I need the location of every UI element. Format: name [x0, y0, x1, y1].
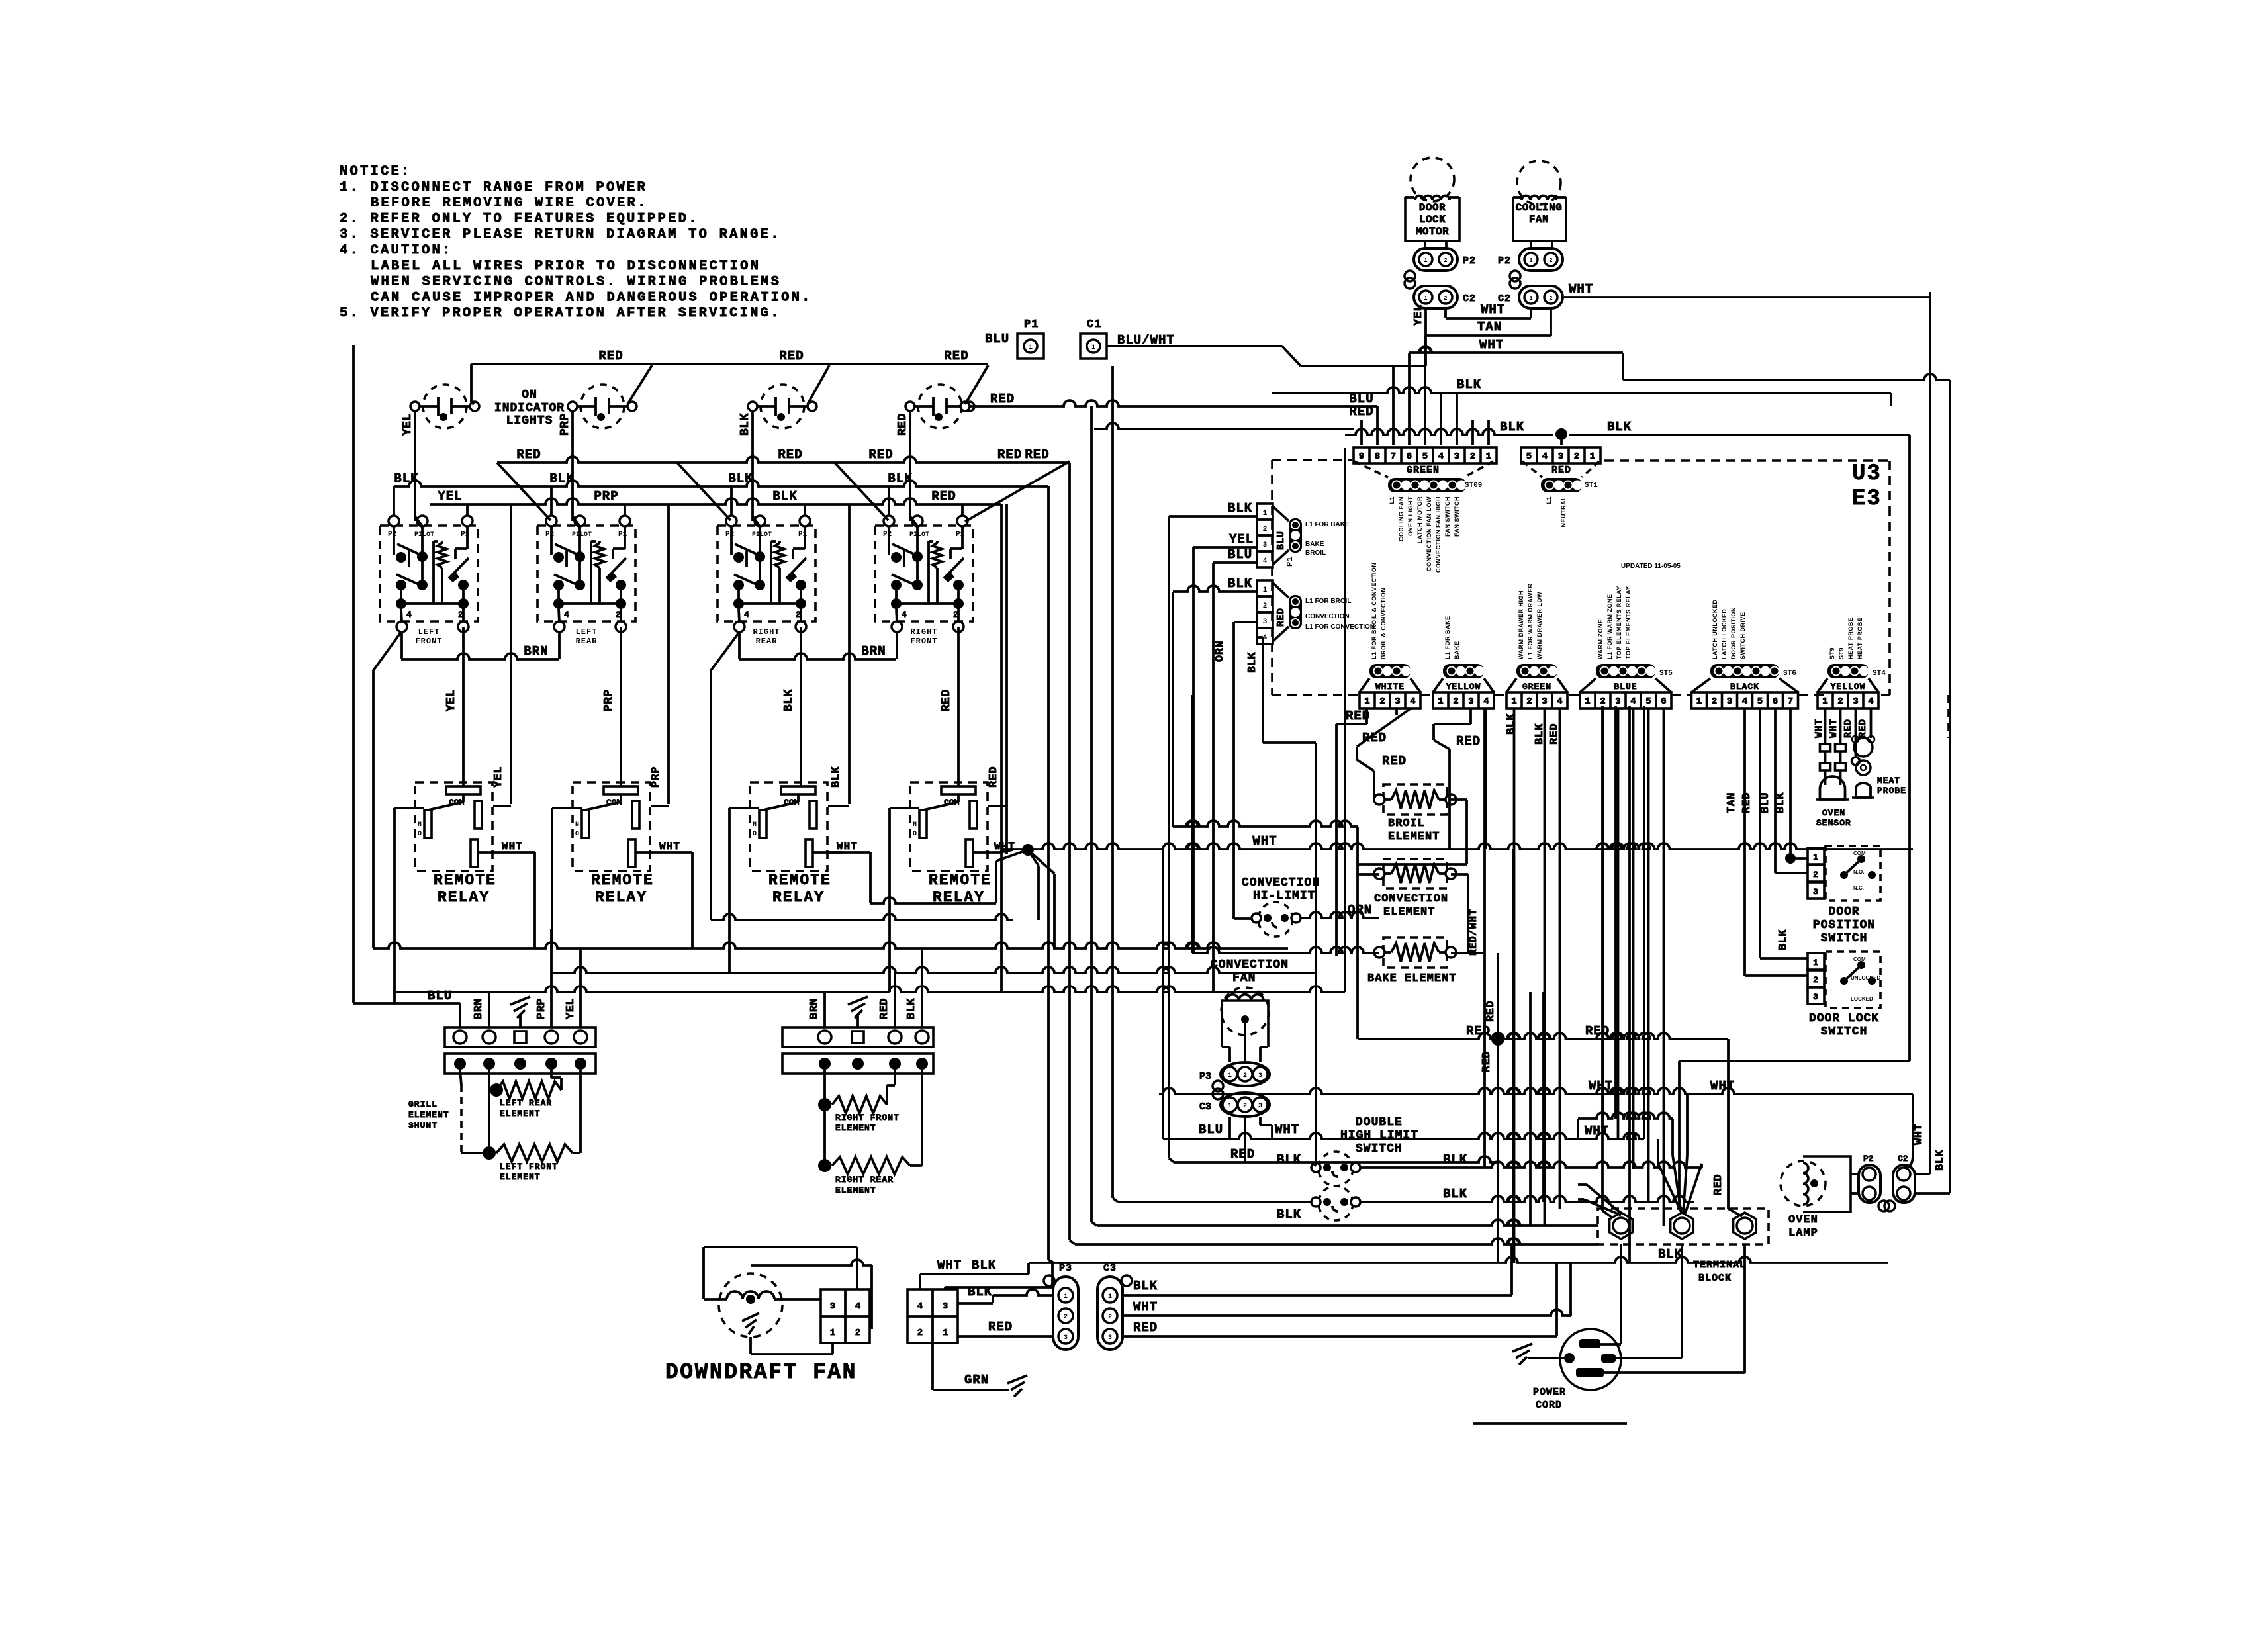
svg-text:BLK: BLK	[1246, 652, 1259, 673]
svg-text:TAN: TAN	[1726, 792, 1738, 813]
svg-text:1: 1	[1590, 451, 1595, 462]
svg-text:2: 2	[1526, 696, 1532, 707]
svg-text:GRN: GRN	[964, 1373, 989, 1387]
svg-text:C1: C1	[1087, 318, 1101, 331]
svg-text:ST9: ST9	[1829, 647, 1835, 659]
svg-text:WARM DRAWER LOW: WARM DRAWER LOW	[1536, 592, 1543, 659]
svg-text:YEL: YEL	[445, 689, 458, 711]
svg-text:4: 4	[744, 610, 749, 619]
svg-text:RED: RED	[1133, 1320, 1158, 1335]
svg-text:RED: RED	[1551, 465, 1571, 476]
svg-text:4: 4	[1557, 696, 1562, 707]
svg-text:L1 FOR WARM DRAWER: L1 FOR WARM DRAWER	[1527, 584, 1534, 660]
svg-text:RED: RED	[944, 349, 968, 363]
svg-text:WHT: WHT	[937, 1258, 962, 1273]
svg-text:4: 4	[564, 610, 569, 619]
svg-text:P2: P2	[883, 531, 892, 539]
svg-text:RELAY: RELAY	[772, 889, 825, 906]
svg-text:3: 3	[830, 1301, 835, 1312]
svg-text:SHUNT: SHUNT	[408, 1121, 438, 1130]
svg-text:LATCH LOCKED: LATCH LOCKED	[1721, 609, 1728, 659]
svg-text:BLK: BLK	[1500, 420, 1524, 434]
svg-text:1: 1	[1529, 257, 1533, 264]
svg-text:O: O	[913, 831, 917, 838]
svg-text:2: 2	[1379, 696, 1385, 707]
svg-text:ELEMENT: ELEMENT	[500, 1172, 541, 1182]
svg-text:DOOR: DOOR	[1828, 905, 1859, 919]
svg-text:GREEN: GREEN	[1407, 465, 1440, 476]
svg-text:4: 4	[1742, 696, 1747, 707]
svg-text:2: 2	[1243, 1072, 1247, 1079]
svg-text:2: 2	[1574, 451, 1579, 462]
svg-text:BEFORE REMOVING WIRE COVER.: BEFORE REMOVING WIRE COVER.	[371, 196, 648, 211]
svg-text:P2: P2	[545, 531, 554, 539]
svg-text:1: 1	[1585, 696, 1590, 707]
svg-text:P2: P2	[1498, 255, 1511, 267]
svg-text:POSITION: POSITION	[1813, 919, 1875, 932]
svg-text:FAN SWITCH: FAN SWITCH	[1454, 496, 1460, 537]
svg-text:MEAT: MEAT	[1877, 776, 1900, 786]
svg-text:ON: ON	[522, 389, 537, 402]
svg-text:WHT: WHT	[1479, 338, 1504, 352]
svg-text:REMOTE: REMOTE	[929, 872, 992, 889]
svg-text:3: 3	[1263, 541, 1268, 549]
svg-text:C2: C2	[1463, 293, 1476, 304]
svg-text:WHT: WHT	[837, 841, 858, 852]
svg-text:BRN: BRN	[473, 998, 485, 1019]
svg-text:OVEN LIGHT: OVEN LIGHT	[1407, 496, 1414, 536]
svg-text:3: 3	[1558, 451, 1563, 462]
svg-text:RED: RED	[1456, 734, 1481, 749]
svg-text:WHT: WHT	[1814, 719, 1825, 738]
svg-text:PILOT: PILOT	[752, 531, 772, 539]
svg-text:BLK: BLK	[905, 998, 918, 1019]
svg-text:CORD: CORD	[1536, 1400, 1562, 1411]
svg-text:4: 4	[1410, 696, 1415, 707]
svg-text:E3: E3	[1852, 486, 1882, 512]
svg-text:1: 1	[1228, 1072, 1232, 1079]
svg-text:RELAY: RELAY	[438, 889, 490, 906]
svg-text:1: 1	[1813, 958, 1818, 968]
svg-text:1: 1	[1822, 696, 1827, 707]
svg-text:ELEMENT: ELEMENT	[500, 1109, 541, 1119]
svg-text:BROIL & CONVECTION: BROIL & CONVECTION	[1380, 588, 1387, 659]
svg-text:3: 3	[1263, 618, 1268, 626]
svg-text:LATCH UNLOCKED: LATCH UNLOCKED	[1712, 600, 1718, 659]
svg-text:ELEMENT: ELEMENT	[835, 1123, 876, 1133]
svg-text:BLU: BLU	[1199, 1123, 1223, 1137]
svg-text:DOOR: DOOR	[1419, 202, 1446, 214]
svg-text:HEAT PROBE: HEAT PROBE	[1857, 618, 1863, 659]
svg-text:YEL: YEL	[438, 489, 462, 504]
svg-text:L1 FOR CONVECTION: L1 FOR CONVECTION	[1305, 623, 1375, 631]
svg-text:REMOTE: REMOTE	[768, 872, 831, 889]
svg-text:BLK: BLK	[1277, 1152, 1301, 1167]
svg-text:6: 6	[1661, 696, 1666, 707]
svg-text:L1 FOR BROIL & CONVECTION: L1 FOR BROIL & CONVECTION	[1371, 563, 1377, 659]
svg-text:BLK: BLK	[728, 471, 753, 486]
svg-text:3: 3	[1813, 992, 1818, 1002]
svg-text:4: 4	[1868, 696, 1873, 707]
svg-text:2: 2	[1453, 696, 1458, 707]
svg-text:TAN: TAN	[1477, 320, 1502, 334]
svg-text:RED: RED	[940, 689, 953, 711]
svg-text:REAR: REAR	[756, 637, 778, 646]
svg-text:UNLOCKED: UNLOCKED	[1851, 975, 1881, 981]
svg-text:2: 2	[1243, 1103, 1247, 1110]
svg-text:4: 4	[406, 610, 412, 619]
svg-text:DOUBLE: DOUBLE	[1356, 1116, 1403, 1129]
svg-text:4. CAUTION:: 4. CAUTION:	[340, 243, 453, 258]
svg-text:2: 2	[1600, 696, 1605, 707]
svg-text:BLU: BLU	[985, 332, 1009, 346]
svg-text:BLK: BLK	[972, 1258, 996, 1273]
svg-text:BLU: BLU	[1228, 547, 1252, 562]
svg-text:MOTOR: MOTOR	[1416, 226, 1450, 238]
svg-text:1: 1	[943, 1328, 948, 1338]
svg-text:RED: RED	[988, 1320, 1013, 1334]
svg-text:BLK: BLK	[772, 489, 797, 504]
svg-text:3: 3	[1615, 696, 1620, 707]
svg-text:1: 1	[830, 1328, 835, 1338]
svg-text:YEL: YEL	[1229, 532, 1254, 547]
svg-text:LATCH MOTOR: LATCH MOTOR	[1416, 496, 1423, 543]
svg-text:P2: P2	[1863, 1154, 1874, 1164]
svg-text:ORN: ORN	[1214, 641, 1226, 662]
svg-text:SWITCH DRIVE: SWITCH DRIVE	[1739, 612, 1746, 659]
svg-text:3: 3	[1468, 696, 1473, 707]
svg-text:WHITE: WHITE	[1375, 682, 1405, 692]
svg-text:ST4: ST4	[1873, 670, 1886, 678]
svg-text:BLK: BLK	[549, 471, 574, 486]
svg-text:BROIL: BROIL	[1305, 549, 1326, 557]
svg-text:3: 3	[943, 1301, 948, 1312]
svg-text:BLUE: BLUE	[1614, 682, 1637, 692]
svg-text:2: 2	[1108, 1314, 1112, 1321]
svg-text:4: 4	[855, 1301, 860, 1312]
svg-text:BROIL: BROIL	[1388, 817, 1425, 830]
svg-text:BLK: BLK	[1658, 1247, 1683, 1262]
svg-text:LABEL ALL WIRES PRIOR TO DISCO: LABEL ALL WIRES PRIOR TO DISCONNECTION	[371, 259, 761, 274]
svg-text:3: 3	[1064, 1334, 1068, 1342]
svg-text:WHT: WHT	[1828, 719, 1839, 738]
svg-text:1: 1	[1064, 1293, 1068, 1301]
svg-text:BLK: BLK	[1228, 576, 1252, 591]
svg-text:6: 6	[1773, 696, 1778, 707]
svg-text:GREEN: GREEN	[1522, 682, 1551, 692]
svg-text:CONVECTION FAN HIGH: CONVECTION FAN HIGH	[1435, 496, 1442, 573]
svg-text:L1: L1	[1389, 496, 1395, 504]
svg-text:ELEMENT: ELEMENT	[1383, 906, 1435, 919]
svg-text:1: 1	[1029, 344, 1033, 351]
svg-text:FAN SWITCH: FAN SWITCH	[1444, 496, 1451, 537]
svg-text:3: 3	[1395, 696, 1400, 707]
svg-text:CONVECTION: CONVECTION	[1211, 958, 1289, 972]
svg-text:L1 FOR BAKE: L1 FOR BAKE	[1444, 616, 1451, 659]
svg-text:PRP: PRP	[535, 998, 548, 1019]
svg-text:N: N	[753, 821, 757, 829]
svg-text:BLOCK: BLOCK	[1698, 1273, 1732, 1284]
svg-text:WHEN SERVICING CONTROLS. WIRIN: WHEN SERVICING CONTROLS. WIRING PROBLEMS	[371, 275, 781, 290]
svg-text:1: 1	[1813, 852, 1818, 862]
svg-text:2. REFER ONLY TO FEATURES EQU: 2. REFER ONLY TO FEATURES EQUIPPED.	[340, 211, 699, 226]
svg-text:RED: RED	[1275, 608, 1287, 627]
svg-text:U3: U3	[1852, 461, 1882, 486]
svg-text:RED: RED	[516, 447, 541, 462]
svg-text:YEL: YEL	[492, 766, 505, 788]
svg-text:REMOTE: REMOTE	[591, 872, 654, 889]
svg-text:2: 2	[1813, 975, 1818, 985]
svg-text:BLK: BLK	[1505, 713, 1518, 735]
svg-text:C3: C3	[1199, 1101, 1211, 1113]
svg-text:2: 2	[917, 1328, 923, 1338]
svg-text:5: 5	[1645, 696, 1651, 707]
svg-text:RED: RED	[988, 766, 1000, 788]
svg-text:4: 4	[1263, 557, 1268, 565]
svg-text:BLK: BLK	[1607, 420, 1632, 434]
svg-text:BLK: BLK	[739, 413, 752, 436]
svg-text:1: 1	[1228, 1103, 1232, 1110]
svg-text:2: 2	[1837, 696, 1843, 707]
svg-text:HI-LIMIT: HI-LIMIT	[1253, 890, 1315, 903]
svg-text:COOLING: COOLING	[1516, 202, 1563, 214]
svg-text:O: O	[753, 831, 757, 838]
svg-text:P2: P2	[725, 531, 734, 539]
svg-text:BLK: BLK	[1443, 1187, 1467, 1201]
svg-text:RELAY: RELAY	[595, 889, 647, 906]
svg-text:RED: RED	[598, 349, 623, 363]
svg-text:1: 1	[1486, 451, 1491, 462]
svg-text:2: 2	[1813, 870, 1818, 880]
svg-text:5. VERIFY PROPER OPERATION AF: 5. VERIFY PROPER OPERATION AFTER SERVICI…	[340, 306, 781, 321]
svg-text:2: 2	[1263, 602, 1268, 610]
svg-text:OVEN: OVEN	[1788, 1214, 1818, 1226]
svg-text:PRP: PRP	[594, 489, 618, 504]
svg-text:1: 1	[1263, 510, 1268, 518]
svg-text:L1: L1	[1546, 496, 1552, 504]
svg-text:3. SERVICER PLEASE RETURN DIA: 3. SERVICER PLEASE RETURN DIAGRAM TO RAN…	[340, 227, 781, 242]
svg-text:FRONT: FRONT	[910, 637, 937, 646]
svg-text:1. DISCONNECT RANGE FROM POWE: 1. DISCONNECT RANGE FROM POWER	[340, 180, 647, 195]
svg-text:RED: RED	[868, 447, 893, 462]
svg-text:P1: P1	[1024, 318, 1039, 331]
svg-text:WHT: WHT	[659, 841, 680, 852]
svg-text:RED: RED	[878, 998, 891, 1019]
svg-text:ST9: ST9	[1838, 647, 1845, 659]
svg-text:RED: RED	[1382, 754, 1407, 768]
svg-text:2: 2	[1549, 257, 1552, 264]
svg-text:LEFT: LEFT	[418, 627, 440, 637]
svg-text:5: 5	[1422, 451, 1428, 462]
svg-text:2: 2	[1064, 1314, 1068, 1321]
svg-text:2: 2	[1470, 451, 1475, 462]
svg-text:L1 FOR WARM ZONE: L1 FOR WARM ZONE	[1606, 594, 1613, 660]
svg-text:4: 4	[1438, 451, 1444, 462]
svg-text:BLACK: BLACK	[1730, 682, 1759, 692]
svg-text:1: 1	[1364, 696, 1369, 707]
svg-text:BRN: BRN	[861, 644, 886, 659]
svg-text:6: 6	[1407, 451, 1412, 462]
svg-text:1: 1	[1529, 295, 1533, 302]
svg-text:LEFT REAR: LEFT REAR	[500, 1098, 552, 1108]
svg-text:2: 2	[1263, 526, 1268, 533]
svg-text:RED: RED	[1741, 792, 1753, 813]
svg-text:LAMP: LAMP	[1788, 1227, 1818, 1240]
svg-text:BAKE: BAKE	[1305, 541, 1324, 548]
svg-text:YELLOW: YELLOW	[1831, 682, 1866, 692]
svg-text:TOP ELEMENTS RELAY: TOP ELEMENTS RELAY	[1616, 586, 1622, 659]
svg-text:RED: RED	[1485, 1001, 1497, 1022]
svg-text:RED: RED	[997, 447, 1022, 462]
svg-text:PRP: PRP	[602, 689, 616, 711]
svg-text:ST1: ST1	[1585, 482, 1598, 490]
svg-text:BLK: BLK	[1277, 1207, 1301, 1222]
svg-text:SWITCH: SWITCH	[1821, 1025, 1868, 1038]
svg-text:RED: RED	[778, 447, 802, 462]
svg-text:NEUTRAL: NEUTRAL	[1560, 496, 1567, 528]
svg-text:NOTICE:: NOTICE:	[340, 164, 412, 179]
svg-text:2: 2	[458, 610, 463, 619]
svg-text:PRP: PRP	[650, 766, 663, 788]
svg-text:DOOR LOCK: DOOR LOCK	[1809, 1012, 1879, 1025]
svg-text:ELEMENT: ELEMENT	[1388, 831, 1440, 843]
svg-text:RED: RED	[1230, 1147, 1255, 1162]
svg-text:3: 3	[1108, 1334, 1112, 1342]
svg-text:BLK: BLK	[888, 471, 912, 486]
svg-text:1: 1	[1108, 1293, 1112, 1301]
svg-text:BLK: BLK	[830, 766, 843, 788]
svg-text:BLK: BLK	[1443, 1152, 1467, 1167]
svg-text:8: 8	[1375, 451, 1380, 462]
svg-text:N: N	[418, 821, 422, 829]
svg-text:FRONT: FRONT	[415, 637, 442, 646]
svg-text:BLU: BLU	[1275, 531, 1287, 550]
svg-text:RIGHT REAR: RIGHT REAR	[835, 1175, 894, 1185]
svg-text:RED: RED	[931, 489, 956, 504]
svg-text:CONVECTION: CONVECTION	[1305, 613, 1350, 620]
svg-text:SENSOR: SENSOR	[1816, 818, 1851, 828]
svg-text:ST5: ST5	[1659, 670, 1673, 678]
svg-text:LOCK: LOCK	[1419, 214, 1446, 226]
svg-text:HEAT PROBE: HEAT PROBE	[1847, 618, 1854, 659]
svg-text:N.C.: N.C.	[1853, 885, 1864, 891]
svg-text:2: 2	[1444, 257, 1447, 264]
svg-text:OVEN: OVEN	[1822, 808, 1845, 818]
svg-text:PRP: PRP	[559, 413, 572, 436]
svg-text:LIGHTS: LIGHTS	[506, 414, 553, 428]
svg-text:PROBE: PROBE	[1877, 786, 1906, 796]
svg-text:RED: RED	[990, 392, 1015, 406]
svg-text:LEFT: LEFT	[576, 627, 598, 637]
svg-text:YELLOW: YELLOW	[1446, 682, 1481, 692]
svg-text:P1: P1	[1285, 557, 1295, 567]
svg-text:RED: RED	[896, 413, 909, 436]
svg-text:YEL: YEL	[1412, 304, 1425, 326]
svg-text:RED: RED	[779, 349, 804, 363]
svg-text:WARM DRAWER HIGH: WARM DRAWER HIGH	[1518, 590, 1524, 659]
svg-text:3: 3	[1542, 696, 1547, 707]
svg-text:BAKE: BAKE	[1454, 641, 1460, 659]
svg-text:9: 9	[1359, 451, 1364, 462]
svg-text:ELEMENT: ELEMENT	[408, 1110, 449, 1120]
svg-text:RIGHT: RIGHT	[753, 627, 780, 637]
svg-text:YEL: YEL	[401, 413, 414, 436]
svg-text:BLK: BLK	[782, 689, 796, 711]
svg-text:4: 4	[1630, 696, 1636, 707]
svg-text:INDICATOR: INDICATOR	[494, 402, 565, 415]
svg-text:RIGHT FRONT: RIGHT FRONT	[835, 1113, 900, 1123]
svg-text:3: 3	[1853, 696, 1858, 707]
svg-text:ELEMENT: ELEMENT	[835, 1185, 876, 1195]
svg-text:4: 4	[902, 610, 907, 619]
svg-text:O: O	[418, 831, 422, 838]
svg-text:P2: P2	[388, 531, 396, 539]
svg-text:4: 4	[917, 1301, 923, 1312]
svg-text:3: 3	[1258, 1072, 1262, 1079]
svg-text:WARM ZONE: WARM ZONE	[1597, 619, 1604, 660]
svg-text:2: 2	[953, 610, 958, 619]
svg-text:2: 2	[1549, 295, 1552, 302]
svg-text:O: O	[575, 831, 579, 838]
svg-text:ST09: ST09	[1465, 482, 1482, 490]
svg-text:BRN: BRN	[524, 644, 548, 659]
svg-text:3: 3	[1813, 887, 1818, 897]
svg-text:RED: RED	[1843, 719, 1854, 738]
svg-text:C2: C2	[1898, 1154, 1908, 1164]
svg-text:3: 3	[1727, 696, 1732, 707]
svg-text:BAKE ELEMENT: BAKE ELEMENT	[1367, 972, 1456, 985]
svg-text:P2: P2	[1463, 255, 1476, 267]
svg-text:7: 7	[1391, 451, 1396, 462]
svg-text:CAN CAUSE IMPROPER AND DANGERO: CAN CAUSE IMPROPER AND DANGEROUS OPERATI…	[371, 290, 812, 305]
svg-text:YEL: YEL	[565, 998, 577, 1019]
svg-text:2: 2	[1712, 696, 1717, 707]
svg-text:HIGH LIMIT: HIGH LIMIT	[1340, 1129, 1418, 1142]
svg-text:1: 1	[1424, 295, 1428, 302]
svg-text:RIGHT: RIGHT	[910, 627, 937, 637]
svg-text:SWITCH: SWITCH	[1356, 1142, 1403, 1156]
svg-text:CONVECTION: CONVECTION	[1242, 876, 1320, 890]
svg-text:DOWNDRAFT FAN: DOWNDRAFT FAN	[665, 1360, 857, 1385]
svg-text:WHT: WHT	[1913, 1124, 1925, 1145]
svg-text:CONVECTION FAN LOW: CONVECTION FAN LOW	[1426, 496, 1432, 571]
svg-text:PILOT: PILOT	[909, 531, 929, 539]
svg-text:3: 3	[1258, 1103, 1262, 1110]
svg-text:WHT: WHT	[1481, 302, 1505, 317]
svg-text:5: 5	[1526, 451, 1532, 462]
svg-text:BLK: BLK	[1133, 1279, 1158, 1293]
svg-text:WHT: WHT	[1569, 282, 1593, 297]
svg-text:ST6: ST6	[1783, 670, 1796, 678]
svg-text:POWER: POWER	[1533, 1387, 1566, 1398]
svg-text:1: 1	[1696, 696, 1702, 707]
svg-text:COOLING FAN: COOLING FAN	[1398, 496, 1405, 541]
svg-text:1: 1	[1424, 257, 1428, 264]
svg-text:WHT: WHT	[1275, 1123, 1299, 1137]
svg-text:LEFT FRONT: LEFT FRONT	[500, 1162, 558, 1171]
svg-text:BLK: BLK	[1228, 501, 1252, 516]
svg-text:1: 1	[1091, 344, 1095, 351]
svg-text:WHT: WHT	[1252, 834, 1277, 849]
svg-text:DOOR POSITION: DOOR POSITION	[1730, 607, 1737, 659]
svg-text:PILOT: PILOT	[572, 531, 592, 539]
svg-text:RED: RED	[1712, 1174, 1725, 1195]
svg-text:BLK: BLK	[1934, 1150, 1947, 1171]
svg-text:BRN: BRN	[808, 998, 821, 1019]
svg-text:BLK: BLK	[1777, 929, 1790, 950]
svg-text:PILOT: PILOT	[414, 531, 434, 539]
svg-text:BLK: BLK	[1457, 377, 1481, 392]
